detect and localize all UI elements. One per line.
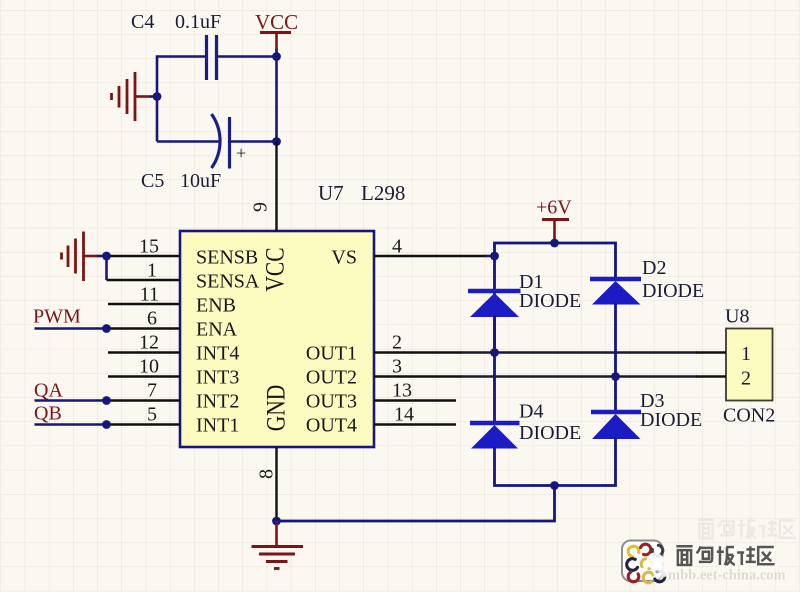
svg-text:GND: GND [261, 385, 291, 432]
svg-text:13: 13 [392, 380, 412, 402]
wire ground to left rail [150, 95, 157, 98]
D1 value DIODE [519, 290, 581, 312]
pin number 8 [256, 469, 278, 479]
pin 13 stub wire [374, 399, 456, 401]
wire left rail junction to D4 [493, 353, 496, 424]
svg-text:SENSA: SENSA [196, 271, 260, 293]
node junction pin4/left rail [490, 252, 499, 261]
pin 8 wire (GND pin, bottom) [275, 447, 277, 521]
svg-text:L298: L298 [361, 181, 405, 205]
watermark ghost text copy [698, 520, 796, 539]
connector U8 body [726, 329, 773, 401]
watermark url text [668, 568, 787, 585]
svg-text:CON2: CON2 [723, 405, 775, 427]
pin 11 stub wire [108, 303, 180, 305]
wire VCC stem to node [275, 49, 278, 57]
U7 GND pin name (rotated) [261, 385, 291, 432]
svg-text:11: 11 [140, 284, 159, 306]
D4 designator [519, 401, 543, 423]
pin 3 stub wire [374, 375, 462, 377]
svg-text:DIODE: DIODE [519, 290, 581, 312]
svg-text:PWM: PWM [33, 306, 81, 328]
U8 part value CON2 [723, 405, 775, 427]
node junction at pin 5 [102, 420, 111, 429]
svg-text:1: 1 [147, 260, 157, 282]
svg-text:SENSB: SENSB [196, 247, 258, 269]
capacitor C5 value 10uF [180, 170, 221, 192]
U7 left pin number labels [139, 236, 159, 426]
capacitor C4 designator label [131, 11, 154, 33]
U8 pin 1 stub [696, 351, 726, 353]
power symbol VCC [255, 10, 298, 50]
wire bridge bottom rail [495, 437, 616, 486]
svg-text:INT3: INT3 [196, 367, 239, 389]
node junction at pin 15 [102, 252, 111, 261]
svg-text:1: 1 [741, 343, 751, 365]
wire ground to pin 15 node [97, 255, 107, 258]
svg-text:QA: QA [34, 380, 63, 402]
svg-text:2: 2 [741, 368, 751, 390]
IC U7 body [180, 231, 374, 447]
wire right rail D2 to junction [614, 303, 617, 377]
U7 right pin number labels [392, 236, 414, 426]
pin 14 stub wire [374, 423, 456, 425]
wire OUT1 net to U8 pin1 [461, 351, 697, 354]
node junction bottom rail [550, 481, 559, 490]
svg-text:DIODE: DIODE [642, 280, 704, 302]
net label PWM [33, 306, 81, 328]
char she [737, 546, 756, 565]
svg-text:VCC: VCC [255, 10, 298, 34]
U8 pin 1 label [741, 343, 751, 365]
D3 designator [640, 390, 664, 412]
op-amp U7 designator [318, 181, 344, 205]
pin 9 wire (VCC pin, top) [275, 142, 277, 232]
wire QB [35, 423, 107, 426]
svg-text:12: 12 [139, 332, 159, 354]
diode D1 [468, 291, 521, 317]
U7 left pin names [196, 247, 260, 437]
wire C4 left plate to left rail [157, 57, 205, 142]
U7 right pin names [306, 247, 357, 437]
watermark text mianbaoban [676, 546, 774, 565]
D1 designator [519, 271, 543, 293]
svg-text:0.1uF: 0.1uF [175, 11, 221, 33]
svg-text:U7: U7 [318, 181, 344, 205]
pin 7 stub wire [107, 399, 181, 401]
svg-text:10: 10 [139, 356, 159, 378]
wire C5 to node [230, 140, 277, 143]
wire PWM [35, 327, 107, 330]
capacitor C4 plates [207, 35, 217, 80]
ground symbol at pins 15/1 (rotated) [62, 232, 99, 282]
svg-text:+6V: +6V [536, 197, 572, 219]
wire bottom of loop: left rail to C5 [157, 140, 220, 143]
node junction at C5/VCC rail [272, 137, 281, 146]
watermark logo box [622, 541, 679, 585]
pin 2 stub wire [374, 351, 462, 353]
wire top-left loop: node to C4 right plate [218, 55, 277, 58]
svg-text:INT4: INT4 [196, 343, 239, 365]
svg-text:5: 5 [147, 404, 157, 426]
pin number 9 [250, 202, 272, 212]
pin 12 stub wire [108, 351, 180, 353]
U7 VCC pin name (rotated) [260, 247, 290, 291]
svg-text:C5: C5 [141, 170, 164, 192]
svg-text:8: 8 [256, 469, 278, 479]
svg-text:OUT1: OUT1 [306, 343, 357, 365]
pin 5 stub wire [107, 423, 181, 425]
svg-text:2: 2 [392, 332, 402, 354]
pin 6 stub wire [107, 327, 181, 329]
ground symbol top-left (rotated) [112, 72, 152, 121]
svg-text:3: 3 [392, 356, 402, 378]
net label QB [34, 403, 62, 425]
svg-text:mbb.eet-china.com: mbb.eet-china.com [668, 568, 786, 584]
D2 designator [642, 257, 666, 279]
U8 pin 2 label [741, 368, 751, 390]
svg-text:6: 6 [147, 308, 157, 330]
U8 pin 2 stub [696, 375, 726, 377]
svg-text:DIODE: DIODE [640, 409, 702, 431]
D2 value DIODE [642, 280, 704, 302]
svg-text:DIODE: DIODE [519, 422, 581, 444]
svg-text:U8: U8 [725, 306, 749, 328]
node junction at VCC/C4 [272, 52, 281, 61]
ground symbol bottom [252, 521, 304, 569]
svg-text:VCC: VCC [260, 247, 290, 291]
svg-text:INT2: INT2 [196, 391, 239, 413]
D3 value DIODE [640, 409, 702, 431]
char ban [717, 546, 735, 565]
svg-text:QB: QB [34, 403, 62, 425]
power symbol +6V [536, 197, 572, 241]
char qu [758, 547, 774, 564]
svg-text:14: 14 [394, 404, 414, 426]
capacitor C4 value 0.1uF [175, 11, 221, 33]
svg-text:OUT2: OUT2 [306, 367, 357, 389]
svg-text:OUT3: OUT3 [306, 391, 357, 413]
svg-text:D4: D4 [519, 401, 543, 423]
wire OUT2 net to U8 pin2 [461, 375, 697, 378]
char mian [676, 546, 692, 565]
node junction OUT1/left rail [490, 348, 499, 357]
U7 part value L298 [361, 181, 405, 205]
diode D4 [470, 423, 520, 449]
svg-text:VS: VS [331, 247, 357, 269]
pin 1 stub wire [107, 279, 181, 281]
pin 10 stub wire [108, 375, 180, 377]
node junction at pin 6 [102, 324, 111, 333]
svg-text:+: + [236, 143, 246, 163]
char bao [697, 546, 713, 562]
svg-text:7: 7 [147, 380, 157, 402]
pin 4 stub wire [374, 255, 487, 257]
svg-text:ENB: ENB [196, 295, 236, 317]
svg-text:C4: C4 [131, 11, 154, 33]
svg-text:INT1: INT1 [196, 415, 239, 437]
node junction ground/left rail [153, 92, 162, 101]
node junction +6V/top rail [550, 239, 559, 248]
wire right rail junction to D3 [614, 377, 617, 413]
svg-text:15: 15 [139, 236, 159, 258]
svg-text:4: 4 [392, 236, 402, 258]
wire QA [35, 399, 107, 402]
svg-text:D2: D2 [642, 257, 666, 279]
wire left rail D1 to junction [493, 315, 496, 353]
capacitor C5 designator label [141, 170, 164, 192]
wire pin 4 to bridge left rail [486, 255, 495, 258]
D4 value DIODE [519, 422, 581, 444]
pin 15 stub wire [107, 255, 181, 257]
capacitor C5 plates (polarized) [212, 114, 247, 169]
svg-text:10uF: 10uF [180, 170, 221, 192]
node junction OUT2/right rail [611, 372, 620, 381]
node junction pin8/ground [272, 517, 281, 526]
diode D3 [591, 412, 641, 439]
wire VCC node down-rail [275, 57, 278, 142]
wire node down to pin 1 [105, 256, 108, 280]
net label QA [34, 380, 63, 402]
wire bridge top rail [495, 243, 616, 353]
wire bottom rail to ground run [276, 486, 555, 522]
diode D2 [590, 279, 641, 305]
svg-text:ENA: ENA [196, 319, 238, 341]
svg-text:OUT4: OUT4 [306, 415, 357, 437]
connector U8 designator [725, 306, 749, 328]
node junction at pin 7 [102, 396, 111, 405]
svg-text:9: 9 [250, 202, 272, 212]
watermark text white emboss shadow [678, 548, 776, 567]
